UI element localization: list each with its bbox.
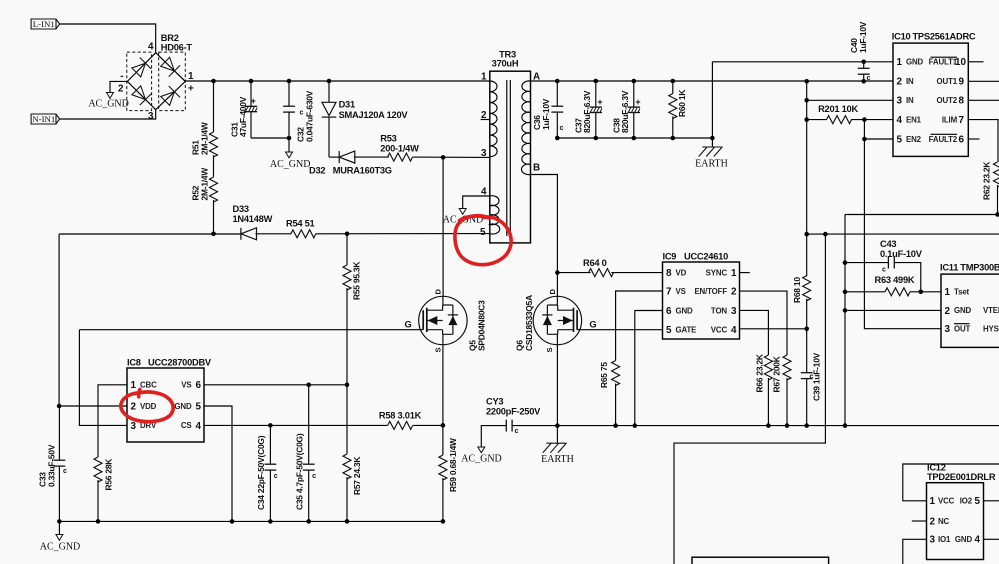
svg-text:1: 1 bbox=[188, 71, 194, 82]
transformer TR3 aux winding pins 4-5 bbox=[490, 196, 500, 234]
red scribble tail at IC8 VDD bbox=[139, 389, 140, 396]
wire IC12 GND4 bbox=[984, 538, 999, 540]
wire Q5 source down bbox=[442, 345, 444, 455]
svg-text:1: 1 bbox=[731, 268, 737, 279]
wire EN1-EN2 and long drop to IC11 OUT bbox=[864, 120, 941, 329]
connector tag L-IN1 bbox=[31, 19, 59, 29]
svg-text:TPS2561ADRC: TPS2561ADRC bbox=[913, 32, 976, 42]
svg-text:MURA160T3G: MURA160T3G bbox=[333, 166, 392, 176]
resistor R51 bbox=[210, 132, 218, 157]
svg-text:2: 2 bbox=[945, 306, 951, 317]
wire VS6 line bbox=[204, 384, 347, 386]
svg-text:SPD04N80C3: SPD04N80C3 bbox=[477, 300, 487, 351]
svg-text:R65 75: R65 75 bbox=[599, 362, 609, 388]
svg-text:c: c bbox=[515, 428, 519, 435]
wire IC12 NC stub bbox=[912, 520, 927, 522]
svg-text:OUT: OUT bbox=[954, 325, 971, 334]
ground AC_GND at C32 bbox=[286, 152, 293, 158]
op-amp IC12 TPD2E001DRLR box bbox=[927, 483, 984, 560]
capacitor C40 bbox=[861, 60, 866, 65]
svg-text:R56 28K: R56 28K bbox=[103, 459, 113, 491]
svg-text:c: c bbox=[867, 75, 871, 82]
wire Q6 gate to IC9 GATE bbox=[577, 329, 662, 331]
svg-text:7: 7 bbox=[666, 287, 672, 298]
op-amp IC11 TMP300 box bbox=[941, 274, 999, 347]
svg-text:SMAJ120A 120V: SMAJ120A 120V bbox=[339, 110, 409, 120]
svg-text:9: 9 bbox=[959, 77, 965, 88]
ground EARTH at Q6 source bbox=[543, 443, 567, 453]
resistor R66 bbox=[764, 355, 772, 380]
svg-text:GND: GND bbox=[174, 402, 192, 411]
svg-text:5: 5 bbox=[666, 325, 672, 336]
svg-text:820uF-6.3V: 820uF-6.3V bbox=[582, 90, 592, 133]
svg-text:+: + bbox=[251, 96, 256, 106]
wire IC9 GND down bbox=[635, 311, 663, 426]
svg-text:4: 4 bbox=[196, 421, 202, 432]
svg-text:CS: CS bbox=[181, 421, 192, 430]
svg-text:SYNC: SYNC bbox=[706, 268, 728, 277]
svg-text:47uF-400V: 47uF-400V bbox=[238, 96, 248, 137]
svg-text:ILIM: ILIM bbox=[942, 115, 958, 124]
wire CBC to R56 bbox=[98, 385, 127, 457]
svg-text:D33: D33 bbox=[233, 204, 249, 214]
TR3 pin4 wire to AC_GND bbox=[463, 196, 490, 209]
svg-text:C34 22pF-50V(C0G): C34 22pF-50V(C0G) bbox=[256, 435, 266, 510]
svg-text:5: 5 bbox=[480, 227, 486, 238]
svg-text:CSD18533Q5A: CSD18533Q5A bbox=[524, 295, 534, 351]
svg-text:2M-1/4W: 2M-1/4W bbox=[200, 122, 210, 155]
svg-text:1: 1 bbox=[897, 57, 903, 68]
svg-text:2: 2 bbox=[131, 401, 137, 412]
svg-text:1: 1 bbox=[481, 72, 487, 83]
svg-text:HD06-T: HD06-T bbox=[161, 43, 193, 53]
wire Q5 gate long line from IC8 DRV bbox=[79, 329, 423, 331]
svg-text:Tset: Tset bbox=[954, 288, 970, 297]
svg-text:VD: VD bbox=[676, 268, 687, 277]
wire secondary bottom rail bbox=[557, 137, 712, 139]
svg-text:D31: D31 bbox=[339, 100, 355, 110]
svg-text:3: 3 bbox=[481, 148, 487, 159]
svg-text:200-1/4W: 200-1/4W bbox=[380, 144, 419, 154]
wire y=234 line bbox=[807, 233, 999, 235]
svg-text:+: + bbox=[597, 97, 602, 107]
wire IC10 pin1 GND line bbox=[712, 61, 893, 63]
svg-text:UCC28700DBV: UCC28700DBV bbox=[148, 358, 212, 368]
capacitor C34 bbox=[269, 425, 271, 464]
svg-text:N-IN1: N-IN1 bbox=[32, 114, 55, 124]
diode D33 bbox=[241, 228, 257, 240]
wire secondary top rail A to IC10 pin2 bbox=[531, 80, 894, 82]
ground AC_GND bottom left bbox=[58, 521, 60, 534]
diode D31 (TVS, vertical) bbox=[328, 81, 330, 102]
svg-text:c: c bbox=[560, 125, 564, 132]
resistor R59 bbox=[439, 455, 447, 480]
wire main EARTH rail y=425.6 bbox=[512, 425, 999, 427]
bridge diode bottom-left bbox=[131, 85, 152, 106]
svg-text:R57 24.3K: R57 24.3K bbox=[352, 457, 362, 495]
resistor R58 bbox=[388, 421, 413, 429]
svg-text:+: + bbox=[188, 84, 194, 95]
node junction rail/R51 bbox=[211, 79, 216, 84]
svg-text:5: 5 bbox=[196, 401, 202, 412]
red scribble circle at IC8 VDD bbox=[121, 392, 173, 422]
svg-text:R64 0: R64 0 bbox=[583, 258, 607, 268]
svg-text:6: 6 bbox=[666, 306, 672, 317]
resistor R201 bbox=[804, 117, 809, 122]
node junction rail/C32 bbox=[287, 79, 292, 84]
svg-text:820uF-6.3V: 820uF-6.3V bbox=[620, 90, 630, 133]
svg-text:c: c bbox=[312, 473, 316, 480]
wire x=845 vertical bbox=[844, 215, 846, 426]
svg-text:5: 5 bbox=[975, 496, 981, 507]
resistor R65 bbox=[612, 361, 620, 386]
svg-text:GATE: GATE bbox=[676, 325, 697, 334]
wire IC12 VCC loop bbox=[903, 464, 999, 501]
svg-text:4: 4 bbox=[975, 535, 981, 546]
node junction pin3/Q5 drain bbox=[441, 155, 446, 160]
svg-text:C35 4.7pF-50V(C0G): C35 4.7pF-50V(C0G) bbox=[294, 433, 304, 510]
red scribble tail at TR3 pin5 bbox=[460, 216, 489, 221]
red scribble circle at TR3 pin5 bbox=[455, 216, 511, 265]
node junction rail/D31 bbox=[327, 79, 332, 84]
wire EN/TOFF to R67 bbox=[740, 291, 788, 355]
TR3 pin2 stub bbox=[481, 119, 490, 121]
svg-text:R201 10K: R201 10K bbox=[818, 104, 858, 114]
node junction C32 bottom bbox=[287, 136, 292, 141]
bridge rectifier BR2 diamond edges bbox=[127, 53, 185, 110]
resistor R67 bbox=[783, 355, 791, 380]
svg-text:1N4148W: 1N4148W bbox=[233, 214, 273, 224]
svg-text:GND: GND bbox=[955, 535, 973, 544]
svg-text:0.33uF-50V: 0.33uF-50V bbox=[47, 444, 57, 487]
resistor R55 bbox=[343, 265, 351, 290]
svg-text:D32: D32 bbox=[309, 166, 325, 176]
wire bottom AC_GND rail bbox=[59, 520, 443, 522]
resistor R62 bbox=[994, 162, 999, 187]
svg-text:IC8: IC8 bbox=[127, 358, 141, 368]
svg-text:3: 3 bbox=[131, 421, 137, 432]
svg-text:EN2: EN2 bbox=[906, 135, 922, 144]
wire IC12 IO2 bbox=[984, 500, 999, 502]
svg-text:TPD2E001DRLR: TPD2E001DRLR bbox=[927, 472, 996, 482]
capacitor C39 bbox=[806, 329, 808, 373]
svg-text:4: 4 bbox=[897, 115, 903, 126]
svg-text:B: B bbox=[533, 163, 540, 174]
svg-text:8: 8 bbox=[666, 268, 672, 279]
wire IN3 line bbox=[807, 99, 893, 101]
svg-text:2: 2 bbox=[930, 516, 936, 527]
resistor R54 bbox=[291, 230, 316, 238]
svg-text:0.047uF-630V: 0.047uF-630V bbox=[305, 90, 315, 142]
capacitor C35 bbox=[308, 385, 310, 464]
svg-text:10: 10 bbox=[955, 57, 966, 68]
svg-text:6: 6 bbox=[196, 380, 202, 391]
svg-text:VDD: VDD bbox=[140, 402, 157, 411]
svg-text:VCC: VCC bbox=[938, 497, 955, 506]
svg-text:VTEMP: VTEMP bbox=[983, 306, 999, 315]
svg-text:S: S bbox=[433, 348, 442, 353]
vertical feed line x=806.7 bbox=[806, 81, 808, 276]
capacitor C36 bbox=[555, 79, 560, 84]
wire OUT2 bbox=[968, 99, 999, 101]
svg-text:+: + bbox=[635, 97, 640, 107]
wire C31 bottom to C32 bbox=[251, 137, 289, 139]
svg-text:3: 3 bbox=[930, 535, 936, 546]
svg-text:S: S bbox=[545, 348, 554, 353]
svg-text:GND: GND bbox=[906, 58, 924, 67]
svg-text:G: G bbox=[405, 320, 412, 330]
svg-text:5: 5 bbox=[897, 134, 903, 145]
wire L-IN1 to bridge bbox=[60, 24, 156, 53]
wire D33 row bbox=[59, 233, 241, 235]
svg-text:R53: R53 bbox=[380, 134, 396, 144]
wire Q5 drain from pin3 junction bbox=[442, 157, 444, 296]
svg-text:VCC: VCC bbox=[711, 325, 728, 334]
transformer TR3 primary winding pins 1-3 bbox=[490, 81, 497, 157]
partial box bottom center bbox=[692, 557, 829, 564]
svg-text:1uF-10V: 1uF-10V bbox=[541, 98, 551, 130]
wire EN2 bbox=[864, 138, 893, 140]
svg-text:HYSTSET: HYSTSET bbox=[983, 325, 999, 334]
svg-text:3: 3 bbox=[945, 324, 951, 335]
bridge diode bottom-right bbox=[160, 86, 181, 107]
svg-text:NC: NC bbox=[938, 517, 950, 526]
capacitor CY3 with AC_GND bbox=[481, 426, 506, 447]
svg-text:UCC24610: UCC24610 bbox=[684, 252, 728, 262]
svg-text:c: c bbox=[274, 473, 278, 480]
wire VCC line bbox=[740, 328, 807, 330]
svg-text:C39 1uF-10V: C39 1uF-10V bbox=[812, 352, 822, 401]
wire CS4 line to R58 bbox=[204, 424, 388, 426]
bridge diode top-right bbox=[160, 56, 181, 77]
wire FAULT1 stub bbox=[968, 61, 983, 63]
svg-text:AC_GND: AC_GND bbox=[40, 541, 81, 552]
wire VDD to left vertical bbox=[59, 405, 127, 407]
capacitor C32 bbox=[288, 81, 290, 106]
wire R62 bottom line to x=845 bbox=[845, 214, 998, 216]
wire N-IN1 to bridge bbox=[60, 110, 156, 119]
resistor R64 bbox=[555, 270, 560, 275]
svg-text:6: 6 bbox=[959, 134, 965, 145]
svg-text:AC_GND: AC_GND bbox=[270, 159, 311, 170]
svg-text:3: 3 bbox=[148, 111, 154, 122]
svg-text:TMP300BDBV: TMP300BDBV bbox=[960, 263, 999, 273]
resistor R68 bbox=[803, 276, 811, 301]
capacitor C31 polarized bbox=[250, 81, 252, 106]
svg-text:VS: VS bbox=[181, 381, 191, 390]
resistor R57 bbox=[346, 385, 348, 454]
svg-text:IC10: IC10 bbox=[892, 32, 911, 42]
svg-text:C43: C43 bbox=[880, 239, 896, 249]
wire ILIM to R62 bbox=[968, 120, 998, 162]
svg-text:c: c bbox=[882, 267, 886, 274]
svg-text:8: 8 bbox=[959, 96, 965, 107]
op-amp IC8 UCC28700DBV box bbox=[127, 368, 204, 442]
wire FAULT2 stub bbox=[968, 138, 979, 140]
op-amp IC10 TPS2561ADRC box bbox=[893, 43, 968, 156]
svg-text:2: 2 bbox=[118, 84, 124, 95]
svg-text:FAULT2: FAULT2 bbox=[929, 135, 958, 144]
transformer TR3 box bbox=[490, 71, 531, 243]
svg-text:EARTH: EARTH bbox=[695, 159, 728, 170]
svg-text:1: 1 bbox=[930, 496, 936, 507]
svg-text:3: 3 bbox=[897, 96, 903, 107]
capacitor C33 bbox=[58, 406, 60, 460]
wire Q6 source down to rail and EARTH bbox=[556, 345, 558, 444]
svg-text:2M-1/4W: 2M-1/4W bbox=[200, 168, 210, 201]
svg-text:370uH: 370uH bbox=[492, 59, 519, 69]
svg-text:TON: TON bbox=[711, 306, 728, 315]
svg-text:R68 10: R68 10 bbox=[792, 277, 802, 303]
svg-text:-: - bbox=[120, 71, 123, 82]
wire R51-R52 bbox=[213, 155, 215, 177]
wire corner to D32 bbox=[329, 156, 340, 158]
svg-text:OUT2: OUT2 bbox=[937, 96, 958, 105]
wire left vertical from D33 row down to IC8 VDD bbox=[58, 234, 60, 406]
svg-text:R58 3.01K: R58 3.01K bbox=[379, 411, 422, 421]
svg-text:2200pF-250V: 2200pF-250V bbox=[486, 407, 541, 417]
svg-text:G: G bbox=[589, 320, 596, 330]
svg-text:VS: VS bbox=[676, 287, 686, 296]
svg-text:IO1: IO1 bbox=[938, 535, 951, 544]
svg-text:R55 95.3K: R55 95.3K bbox=[352, 262, 362, 300]
capacitor C43 bbox=[843, 260, 848, 265]
wire x=825 drop to bottom-left L bbox=[674, 234, 825, 564]
svg-text:0.1uF-10V: 0.1uF-10V bbox=[880, 249, 923, 259]
svg-text:GND: GND bbox=[676, 306, 694, 315]
svg-text:4: 4 bbox=[731, 325, 737, 336]
capacitor C38 polarized bbox=[632, 79, 637, 84]
svg-text:c: c bbox=[300, 110, 304, 117]
svg-text:FAULT1: FAULT1 bbox=[929, 58, 958, 67]
svg-text:EARTH: EARTH bbox=[541, 454, 574, 465]
resistor R53 bbox=[388, 153, 413, 161]
svg-text:BR2: BR2 bbox=[161, 33, 179, 43]
svg-text:R54 51: R54 51 bbox=[286, 219, 315, 229]
wire R51 top bbox=[213, 81, 215, 132]
svg-text:IO2: IO2 bbox=[960, 497, 973, 506]
svg-text:AC_GND: AC_GND bbox=[88, 99, 129, 110]
node junction R52/D33 bbox=[211, 232, 216, 237]
diode D32 bbox=[339, 151, 355, 163]
resistor R52 bbox=[210, 177, 218, 202]
ground AC_GND at bridge bbox=[107, 93, 114, 99]
svg-text:3: 3 bbox=[731, 306, 737, 317]
svg-text:CY3: CY3 bbox=[486, 397, 503, 407]
transformer TR3 secondary winding A-B bbox=[522, 81, 531, 175]
wire GND5 down bbox=[204, 406, 232, 521]
svg-text:D: D bbox=[433, 289, 442, 295]
wire IC9 VS to R65 bbox=[616, 291, 663, 361]
bridge rectifier BR2 dashed boxes bbox=[127, 52, 186, 111]
wire OUT1 bbox=[968, 80, 999, 82]
connector tag N-IN1 bbox=[31, 114, 59, 124]
svg-text:R59 0.68-1/4W: R59 0.68-1/4W bbox=[448, 438, 458, 492]
svg-text:R63 499K: R63 499K bbox=[875, 275, 915, 285]
svg-text:IN: IN bbox=[906, 77, 914, 86]
transformer TR3 core bbox=[507, 80, 511, 236]
svg-text:2: 2 bbox=[897, 77, 903, 88]
svg-text:AC_GND: AC_GND bbox=[461, 454, 502, 465]
wire to AC_GND bbox=[288, 138, 290, 152]
svg-text:IC9: IC9 bbox=[663, 252, 677, 262]
svg-text:EN1: EN1 bbox=[906, 115, 922, 124]
svg-text:4: 4 bbox=[148, 42, 154, 53]
bridge diode top-left bbox=[131, 58, 152, 79]
wire bridge minus stub bbox=[110, 81, 127, 92]
transistor Q5 SPD04N80C3 bbox=[419, 296, 467, 344]
svg-text:R60 1K: R60 1K bbox=[677, 90, 687, 117]
svg-text:c: c bbox=[63, 468, 67, 475]
resistor R60 bbox=[671, 79, 676, 84]
wire IC12 IO1 down bbox=[903, 539, 927, 564]
wire SYNC stub bbox=[740, 272, 750, 274]
wire IC11 GND line bbox=[843, 308, 848, 313]
svg-text:1: 1 bbox=[131, 380, 137, 391]
svg-text:2: 2 bbox=[731, 287, 737, 298]
wire main HV rail bbox=[185, 80, 490, 82]
op-amp IC9 UCC24610 box bbox=[663, 262, 740, 339]
svg-text:OUT1: OUT1 bbox=[937, 77, 958, 86]
transistor Q6 CSD18533Q5A (mirrored) bbox=[533, 296, 581, 344]
svg-text:GND: GND bbox=[954, 306, 972, 315]
node junction R54/R55 bbox=[345, 232, 350, 237]
node junction rail/C31 bbox=[249, 79, 254, 84]
capacitor C37 polarized bbox=[594, 79, 599, 84]
svg-text:CBC: CBC bbox=[140, 381, 157, 390]
svg-text:EN/TOFF: EN/TOFF bbox=[694, 287, 727, 296]
wire TON to R66 bbox=[740, 310, 769, 355]
wire R52 bottom bbox=[213, 200, 215, 234]
svg-text:1: 1 bbox=[945, 287, 951, 298]
wire EARTH drop / IC10 GND riser bbox=[711, 62, 713, 147]
ground EARTH (secondary) bbox=[699, 147, 723, 157]
svg-text:R62 23.2K: R62 23.2K bbox=[982, 162, 992, 200]
resistor R63 bbox=[843, 290, 848, 295]
svg-text:1uF-10V: 1uF-10V bbox=[858, 21, 868, 53]
svg-text:IC11: IC11 bbox=[940, 263, 958, 273]
svg-text:D: D bbox=[548, 289, 557, 295]
svg-text:L-IN1: L-IN1 bbox=[33, 19, 55, 29]
resistor R56 bbox=[94, 457, 102, 482]
svg-text:R66 23.2K: R66 23.2K bbox=[754, 354, 764, 392]
svg-text:IN: IN bbox=[906, 96, 914, 105]
wire DRV corner bbox=[79, 330, 127, 426]
svg-text:7: 7 bbox=[959, 115, 965, 126]
wire B to Q6 drain bbox=[531, 175, 558, 297]
